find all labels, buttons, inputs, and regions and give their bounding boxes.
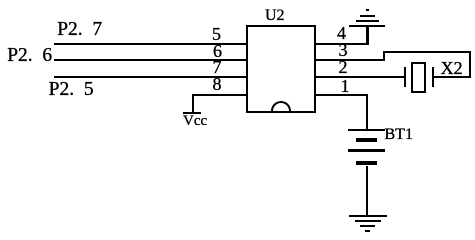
wire pin 3 step up	[383, 51, 385, 61]
wire upper to crystal right	[383, 51, 471, 53]
wire pin 4 to ground	[316, 43, 368, 45]
pin number 2	[339, 58, 348, 76]
pin number 5	[212, 25, 221, 43]
wire crystal right plate to loop	[433, 76, 471, 78]
wire right vertical down	[469, 51, 471, 78]
node label P2.6	[7, 46, 52, 66]
pin number 4	[337, 24, 346, 42]
power symbol Vcc	[0, 0, 475, 1]
wire pin 3 horizontal	[316, 59, 385, 61]
IC U2 body	[0, 0, 475, 1]
node label P2.7	[57, 20, 102, 40]
wire P2.7 to pin 5	[54, 43, 247, 45]
label BT1	[385, 127, 413, 143]
wire pin 1 horizontal	[316, 94, 368, 96]
IC U2 label	[265, 8, 285, 24]
wire Vcc to pin 8	[192, 94, 247, 96]
label X2	[441, 59, 463, 77]
wire battery to ground	[366, 166, 368, 216]
pin number 7	[213, 58, 222, 76]
ground (top right)	[0, 0, 475, 1]
crystal X2	[0, 0, 475, 1]
pin number 1	[341, 77, 350, 95]
pin number 8	[213, 75, 222, 93]
wire pin 2 to crystal	[316, 76, 405, 78]
wire P2.5 to pin 7	[54, 76, 247, 78]
wire P2.6 to pin 6	[54, 59, 247, 61]
wire pin 1 down to battery	[366, 94, 368, 130]
ground (bottom)	[0, 0, 475, 1]
pin number 6	[213, 42, 222, 60]
battery BT1	[0, 0, 475, 1]
pin number 3	[339, 41, 348, 59]
node label P2.5	[49, 80, 94, 100]
